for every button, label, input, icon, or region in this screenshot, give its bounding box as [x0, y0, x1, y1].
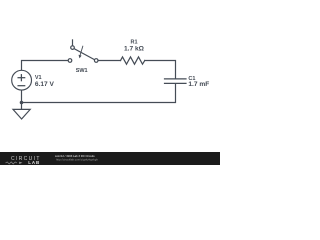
capacitor C1 bottom plate — [165, 82, 187, 84]
switch SW1 left terminal circle — [68, 59, 72, 63]
footer logo zigzag — [6, 162, 17, 164]
svg-text:http://circuitlab.com/c/gxkzhg: http://circuitlab.com/c/gxkzhgxkgh — [56, 158, 98, 162]
V1 minus sign — [18, 85, 25, 87]
V1 plus sign — [18, 75, 25, 86]
switch SW1 top stub — [72, 40, 74, 46]
labels — [35, 40, 209, 88]
capacitor C1 top plate — [165, 78, 187, 80]
wire R1 to top-right corner down to C1 — [145, 61, 176, 79]
wire switch right to R1 — [98, 60, 121, 62]
svg-text:6.17 V: 6.17 V — [35, 81, 55, 88]
switch SW1 pivot circle — [71, 46, 75, 50]
ground stub — [21, 103, 23, 110]
voltage source V1 circle — [12, 70, 32, 90]
svg-text:1.7 mF: 1.7 mF — [188, 81, 209, 88]
switch SW1 lever — [74, 49, 95, 60]
junction dot — [20, 101, 24, 105]
wire V1 bottom — [21, 90, 23, 102]
switch SW1 arrow — [80, 46, 83, 55]
svg-text:SW1: SW1 — [76, 68, 88, 74]
ground triangle — [13, 109, 30, 119]
wire C1 bottom to ground rail — [22, 84, 176, 103]
wire V1 top to switch left — [22, 61, 69, 71]
footer logo diode arrow — [19, 162, 22, 164]
footer bar — [0, 152, 220, 165]
svg-text:LAB: LAB — [28, 160, 40, 165]
svg-text:1.7 kΩ: 1.7 kΩ — [124, 46, 145, 53]
switch SW1 right terminal circle — [94, 59, 98, 63]
resistor R1 — [121, 57, 145, 64]
